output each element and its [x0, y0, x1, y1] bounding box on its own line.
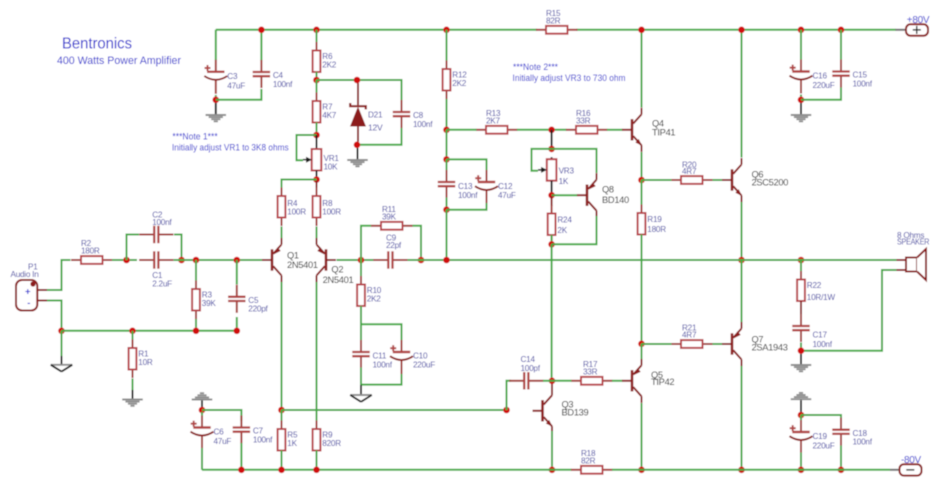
svg-text:100nf: 100nf	[458, 191, 478, 200]
wire R20 to Q6 base	[713, 179, 723, 181]
svg-text:2SA1943: 2SA1943	[752, 342, 788, 352]
svg-text:C3: C3	[227, 72, 238, 81]
ground input triangle	[51, 365, 73, 372]
junction R12 R13 C13	[443, 127, 450, 134]
wire C16 ground stem	[800, 103, 802, 115]
svg-text:4R7: 4R7	[682, 331, 697, 340]
trimmer VR3	[538, 157, 574, 186]
svg-text:2K: 2K	[557, 226, 567, 235]
svg-text:C19: C19	[813, 432, 828, 441]
svg-text:C13: C13	[458, 182, 473, 191]
svg-text:***Note 1***: ***Note 1***	[172, 132, 218, 142]
wire C11 ground stem	[360, 385, 362, 395]
wire C9 left stub	[361, 259, 374, 261]
wire C3 ground stem	[215, 103, 217, 115]
wire Q8 base	[552, 194, 578, 196]
wire C4 drop	[260, 30, 262, 61]
svg-text:100nf: 100nf	[853, 438, 873, 447]
svg-text:2K7: 2K7	[486, 117, 501, 126]
junction D21 bottom	[354, 142, 361, 149]
wire C17 bottom	[800, 343, 802, 351]
speaker SPEAKER 8 Ohms	[897, 231, 930, 280]
wire R9 bottom	[316, 451, 318, 470]
supply +80V	[906, 15, 930, 36]
capacitor C14	[509, 355, 543, 390]
svg-text:Bentronics: Bentronics	[62, 36, 132, 53]
wire R6-R7 node	[316, 72, 318, 80]
wire C3-C4 bottom link	[215, 95, 217, 100]
svg-text:C17: C17	[813, 331, 828, 340]
connector P1	[11, 262, 48, 310]
svg-text:2K2: 2K2	[322, 61, 337, 70]
svg-text:180R: 180R	[647, 225, 666, 234]
svg-text:1K: 1K	[287, 439, 297, 448]
wire C19 top lead	[800, 415, 802, 420]
wire Q1 collector to Q3 base	[282, 409, 507, 411]
wire R24 top lead	[551, 196, 553, 206]
junction VR3 R24 Q8 base	[548, 192, 555, 199]
wire P1 minus down	[47, 301, 62, 331]
svg-text:R22: R22	[807, 281, 822, 290]
wire C5 bottom	[236, 317, 238, 331]
junction bottom rail R5	[278, 467, 285, 474]
resistor R13	[476, 109, 518, 134]
svg-text:TIP41: TIP41	[652, 127, 675, 137]
svg-text:100nf: 100nf	[273, 80, 293, 89]
wire C6 top lead	[201, 412, 203, 416]
svg-text:BD140: BD140	[602, 195, 629, 205]
wire input ground stem	[61, 331, 63, 356]
wire R16 to Q4 base	[607, 129, 623, 131]
resistor R4	[278, 188, 307, 227]
wire R3 bottom	[195, 319, 197, 331]
svg-text:4K7: 4K7	[322, 111, 337, 120]
wire C2 loop right	[174, 235, 182, 261]
svg-text:39K: 39K	[382, 213, 397, 222]
junction top rail Q6	[738, 27, 745, 34]
wire VR1 bottom	[316, 171, 318, 180]
wire R13 node to VR3	[551, 130, 553, 149]
svg-text:VR3: VR3	[559, 167, 575, 176]
wire R19 to Q5 emitter	[641, 235, 643, 344]
resistor R18	[571, 449, 613, 474]
svg-text:220uF: 220uF	[813, 442, 835, 451]
svg-text:400 Watts Power Amplifier: 400 Watts Power Amplifier	[57, 55, 181, 67]
wire spreader top to Q8 emitter	[552, 149, 597, 173]
wire P1 plus to R2	[47, 260, 71, 290]
junction R3 bottom	[193, 328, 200, 335]
resistor R9	[313, 421, 342, 460]
supply -80V	[900, 455, 922, 476]
resistor R11	[371, 205, 413, 230]
svg-text:10K: 10K	[324, 163, 339, 172]
capacitor C18	[832, 418, 872, 447]
wire R10 drop	[360, 260, 362, 276]
ground below C3	[206, 115, 227, 121]
svg-text:-80V: -80V	[901, 455, 922, 466]
wire +80V rail right	[577, 29, 897, 31]
capacitor C6	[191, 416, 232, 450]
wire R1 ground stem	[132, 379, 134, 391]
wire D21 ground stem	[357, 148, 359, 160]
ground below C16	[791, 115, 812, 121]
svg-text:+: +	[25, 287, 31, 298]
junction C6 ground	[199, 407, 206, 414]
wire Q8 collector link	[552, 216, 597, 244]
wire to R3	[174, 259, 263, 261]
junction C13 C12 top	[443, 156, 450, 163]
svg-text:+80V: +80V	[907, 15, 930, 26]
svg-text:10R/1W: 10R/1W	[807, 293, 836, 302]
wire C8 D21 bottom link	[357, 128, 402, 145]
svg-text:220uF: 220uF	[413, 361, 435, 370]
wire R8 top lead	[316, 181, 318, 189]
wire C9 right stub	[408, 259, 422, 261]
wire C14 left link	[507, 381, 512, 410]
capacitor C1	[139, 251, 173, 288]
wire VR3 wiper loop	[532, 149, 552, 171]
transistor Q8	[577, 173, 629, 217]
wire C19 bottom	[800, 453, 802, 470]
svg-text:BD139: BD139	[562, 407, 589, 417]
svg-text:2N5401: 2N5401	[323, 275, 354, 285]
wire node to D21 C8	[317, 80, 402, 100]
wire Q3 collector up	[551, 382, 553, 390]
capacitor C3	[204, 60, 245, 94]
capacitor C5	[228, 285, 268, 314]
wire Q4 emitter down	[641, 152, 643, 180]
svg-text:82R: 82R	[546, 17, 561, 26]
resistor R19	[638, 205, 667, 244]
resistor R7	[313, 93, 337, 132]
wire R13 to R16	[517, 129, 567, 131]
wire C17 ground stem	[800, 354, 802, 365]
svg-text:D21: D21	[368, 111, 383, 120]
wire C2 loop left	[127, 235, 140, 261]
wire R7 top	[316, 80, 318, 93]
wire -80V rail right	[612, 469, 890, 471]
svg-text:1K: 1K	[559, 177, 569, 186]
svg-text:47uF: 47uF	[498, 191, 516, 200]
svg-text:39K: 39K	[202, 299, 217, 308]
svg-text:2.2uF: 2.2uF	[152, 280, 172, 289]
wire rail to R12	[446, 30, 448, 61]
wire C7 bottom to rail	[240, 443, 242, 470]
wire R7 to VR1 loop	[316, 123, 318, 136]
wire Q3 emitter down	[551, 431, 553, 470]
trimmer VR1	[303, 147, 339, 172]
capacitor C7	[233, 416, 273, 445]
junction R22 top	[798, 257, 805, 264]
transistor Q4	[622, 108, 675, 152]
transistor Q6	[722, 158, 788, 202]
junction top rail C4	[258, 27, 265, 34]
junction C3 bottom	[213, 97, 220, 104]
svg-text:2N5401: 2N5401	[287, 260, 318, 270]
ground below C11 C10	[350, 395, 372, 402]
wire R11 loop left	[361, 226, 371, 260]
resistor R17	[571, 360, 613, 385]
junction top rail R12	[443, 27, 450, 34]
junction top rail C16	[798, 27, 805, 34]
capacitor C9	[373, 234, 407, 269]
wire R5 bottom	[281, 451, 283, 470]
wire R11 loop right	[413, 226, 422, 260]
junction bottom rail C19	[798, 467, 805, 474]
svg-text:C14: C14	[521, 355, 536, 364]
wire C14 to junction	[543, 380, 552, 382]
resistor R1	[129, 340, 153, 379]
transistor Q1	[262, 238, 318, 282]
svg-text:C12: C12	[498, 182, 513, 191]
wire R1 top lead	[132, 331, 134, 340]
capacitor C10	[390, 340, 435, 374]
svg-text:2K2: 2K2	[367, 295, 382, 304]
wire output rail a	[421, 259, 742, 261]
capacitor C15	[832, 60, 872, 89]
wire speaker return	[801, 270, 897, 351]
junction R3 top	[193, 257, 200, 264]
resistor R8	[313, 188, 342, 227]
svg-text:100nf: 100nf	[853, 79, 873, 88]
wire R2 to C1	[112, 259, 137, 261]
junction Q4 emitter R19 R20	[638, 177, 645, 184]
resistor R10	[357, 276, 382, 315]
svg-text:C16: C16	[813, 72, 828, 81]
svg-text:-: -	[27, 298, 30, 309]
resistor R16	[566, 109, 608, 134]
junction top rail Q4	[638, 27, 645, 34]
junction C19 ground	[798, 412, 805, 419]
capacitor C12	[475, 170, 516, 204]
wire R21 to Q7 base	[713, 343, 723, 345]
wire C3 drop	[215, 30, 217, 60]
capacitor C2	[139, 211, 173, 244]
resistor R12	[443, 61, 468, 100]
wire to C4 bottom	[216, 89, 262, 100]
junction Q5 collector rail	[638, 467, 645, 474]
svg-text:Q1: Q1	[287, 250, 299, 260]
junction top rail C15	[838, 27, 845, 34]
junction bottom rail R9	[313, 467, 320, 474]
transistor Q7	[722, 322, 788, 366]
capacitor C13	[438, 170, 478, 200]
wire C19 C18 top link	[801, 415, 841, 419]
svg-text:100nf: 100nf	[813, 340, 833, 349]
wire input bottom bus	[62, 330, 237, 332]
wire R22 top stub	[800, 260, 802, 272]
wire VR3 bottom	[551, 181, 553, 196]
svg-text:Q2: Q2	[331, 265, 343, 275]
wire R17 left	[552, 380, 572, 382]
junction input ground	[58, 328, 65, 335]
svg-text:R24: R24	[557, 216, 572, 225]
resistor R21	[671, 324, 713, 348]
wire C6 C7 top link	[202, 410, 241, 421]
svg-text:100R: 100R	[287, 208, 306, 217]
wire C18 bottom	[840, 446, 842, 470]
zener diode D21	[350, 83, 383, 142]
wire Q5 emitter up	[641, 344, 643, 359]
svg-text:33R: 33R	[583, 367, 598, 376]
junction C14 Q3 base	[503, 407, 510, 414]
capacitor C17	[792, 314, 832, 349]
resistor R2	[71, 239, 113, 264]
junction C9 R11 right	[418, 257, 425, 264]
wire Q1 collector down	[281, 282, 283, 410]
wire C12 bottom link	[447, 203, 487, 210]
wire Q2 base to feedback	[337, 259, 362, 261]
junction R13 R16 VR3	[548, 127, 555, 134]
junction Q3 emitter rail	[549, 467, 556, 474]
ground above C6	[192, 393, 213, 399]
wire Q4 collector to rail	[641, 30, 643, 108]
wire C15 drop	[840, 30, 842, 60]
junction C5 top	[234, 257, 241, 264]
wire VR1 wiper loop	[297, 135, 317, 160]
resistor R6	[313, 42, 337, 81]
wire VR1 to R4	[282, 180, 317, 189]
wire R13 left lead	[447, 129, 477, 131]
junction VR1 top loop	[313, 132, 320, 139]
wire C19 ground stem	[800, 400, 802, 412]
wire C13 top stub	[446, 159, 448, 170]
junction Q1 collector R5	[278, 407, 285, 414]
svg-text:100pf: 100pf	[521, 364, 541, 373]
svg-text:220uF: 220uF	[813, 81, 835, 90]
wire C5 drop	[236, 260, 238, 285]
wire R19 top	[641, 180, 643, 205]
svg-text:C6: C6	[214, 428, 225, 437]
wire Q2 collector down	[316, 282, 318, 422]
svg-text:Audio In: Audio In	[11, 270, 40, 279]
svg-text:100R: 100R	[322, 208, 341, 217]
resistor R20	[671, 160, 713, 184]
svg-text:33R: 33R	[576, 117, 591, 126]
junction top rail R6	[313, 27, 320, 34]
wire C11 C10 bottom link	[361, 368, 402, 385]
svg-text:Initially adjust VR3 to 730 oh: Initially adjust VR3 to 730 ohm	[513, 73, 626, 83]
svg-text:2K2: 2K2	[452, 79, 467, 88]
svg-text:100nf: 100nf	[413, 120, 433, 129]
wire C6 bottom to rail	[201, 448, 203, 470]
svg-text:180R: 180R	[81, 247, 100, 256]
wire VR1 top lead	[316, 135, 318, 149]
junction bottom rail Q7	[738, 467, 745, 474]
svg-text:Q8: Q8	[602, 185, 614, 195]
ground below D21	[347, 160, 368, 166]
wire R3 drop	[195, 260, 197, 281]
wire C13 top drop	[446, 130, 448, 160]
svg-text:12V: 12V	[368, 123, 383, 133]
junction C17 speaker ground	[798, 347, 805, 354]
transistor Q5	[622, 359, 674, 403]
svg-text:SPEAKER: SPEAKER	[897, 238, 929, 247]
junction D21 top	[354, 77, 361, 84]
svg-text:Initially adjust VR1 to 3K8 oh: Initially adjust VR1 to 3K8 ohms	[172, 142, 289, 152]
svg-text:4R7: 4R7	[682, 167, 697, 176]
junction C16 C15 bottom	[798, 97, 805, 104]
resistor R24	[548, 205, 573, 244]
svg-text:47uF: 47uF	[227, 81, 245, 90]
ground below C17	[791, 365, 812, 371]
wire rail to R6	[316, 30, 318, 42]
junction R2 C1 C2	[123, 257, 130, 264]
svg-text:C10: C10	[413, 351, 428, 360]
resistor R3	[192, 281, 216, 320]
svg-text:82R: 82R	[581, 457, 596, 466]
junction Q3 collector C14 R17	[549, 378, 556, 385]
capacitor C8	[393, 100, 433, 129]
junction bottom rail C7	[238, 467, 245, 474]
wire Q6 collector to rail	[741, 30, 743, 158]
junction VR1 bottom R4 R8	[313, 176, 320, 183]
wire R24 bottom	[551, 235, 553, 244]
wire R20 left	[642, 179, 672, 181]
svg-text:100nf: 100nf	[253, 435, 273, 444]
transistor Q3	[533, 389, 589, 433]
capacitor C11	[352, 340, 392, 370]
wire Q7 collector to rail	[741, 366, 743, 470]
capacitor C4	[253, 60, 293, 89]
svg-text:47uF: 47uF	[214, 437, 232, 446]
junction bootstrap output	[443, 257, 450, 264]
wire lead to -80V port	[890, 469, 900, 471]
wire R8 to Q2 emitter	[316, 227, 318, 241]
wire +80V rail left	[216, 29, 537, 31]
resistor R22	[797, 271, 835, 310]
wire C11 drop	[360, 324, 362, 340]
junction R1 top	[129, 328, 136, 335]
wire Q6 emitter to output	[741, 202, 743, 260]
junction output Q6	[738, 257, 745, 264]
junction C1 C2 right	[178, 257, 185, 264]
junction R21 Q5 emitter	[638, 341, 645, 348]
transistor Q2	[317, 238, 354, 285]
junction Q2 base R10 R11	[358, 257, 365, 264]
wire C16 drop	[800, 30, 802, 60]
wire R12 to R13 node	[446, 99, 448, 130]
capacitor C19	[790, 420, 835, 454]
svg-text:22pf: 22pf	[386, 241, 402, 250]
junction R6 R7 D21	[313, 77, 320, 84]
svg-text:2SC5200: 2SC5200	[752, 177, 789, 187]
svg-text:R19: R19	[647, 215, 662, 224]
wire C6 ground stem	[201, 401, 203, 408]
junction C5 bottom	[234, 328, 241, 335]
wire C12 top link	[447, 159, 487, 170]
wire R10 to C11 C10	[361, 306, 402, 341]
resistor R5	[278, 421, 298, 460]
ground above C19	[791, 393, 812, 399]
wire C15 bottom link	[801, 88, 841, 100]
junction C13 C12 bottom	[443, 206, 450, 213]
wire C16 bottom	[800, 95, 802, 100]
junction VR3 top loop	[548, 146, 555, 153]
svg-text:100nf: 100nf	[373, 361, 393, 370]
wire C13 bottom	[446, 198, 448, 210]
wire bootstrap to output rail	[446, 210, 448, 260]
svg-text:TIP42: TIP42	[651, 377, 674, 387]
wire R4 to Q1 emitter	[281, 227, 283, 241]
svg-text:10R: 10R	[138, 358, 153, 367]
svg-text:100nf: 100nf	[152, 218, 172, 227]
capacitor C16	[790, 60, 835, 94]
svg-text:220pf: 220pf	[248, 305, 268, 314]
wire R21 left	[642, 343, 672, 345]
wire Q5 collector down	[641, 403, 643, 470]
wire -80V rail left	[202, 469, 572, 471]
